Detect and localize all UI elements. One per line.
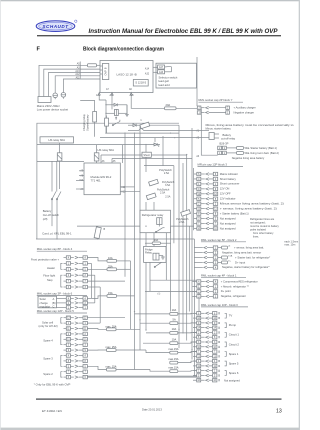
module S1218-5	[133, 80, 148, 87]
svg-text:Minus sensor living area batte: Minus sensor living area battery (batt. …	[220, 202, 284, 206]
refrigerator relay contact	[155, 228, 164, 233]
module left pins	[79, 170, 84, 191]
wire A32-A16	[153, 71, 158, 73]
wire block4 row4	[87, 274, 94, 276]
wire A14-A17	[153, 66, 158, 68]
fuse max20A	[107, 328, 117, 331]
varistor P3	[181, 210, 191, 217]
block6 row 3 pin 1	[57, 306, 88, 310]
fuse 50A starter	[226, 147, 236, 149]
wire bus y133	[106, 132, 179, 134]
svg-text:max. 20A: max. 20A	[106, 324, 117, 328]
module top pins A6 A5	[102, 160, 117, 163]
block3 row 10 pin 3	[194, 216, 236, 220]
block2 row 4 pin 3	[194, 260, 245, 264]
selector text	[159, 76, 178, 87]
block4 row 5 pin 7	[64, 279, 88, 283]
block1 row 2 pin 1	[193, 284, 249, 288]
bus wire x130.5	[130, 261, 132, 329]
fuse 10A circuit2	[170, 342, 178, 345]
left vertical v100	[99, 287, 101, 323]
wire y158	[112, 158, 192, 160]
fridge relay box	[144, 246, 166, 262]
svg-text:10A: 10A	[108, 256, 113, 260]
mains inline fuse	[88, 64, 97, 67]
svg-text:Refrigerator lines are: Refrigerator lines are	[250, 217, 275, 221]
svg-text:Not assigned: Not assigned	[220, 216, 236, 220]
svg-text:lead acid: lead acid	[159, 83, 171, 87]
blockII row 9 pin 7	[193, 350, 220, 354]
svg-text:Date 20.01.2013: Date 20.01.2013	[142, 408, 162, 412]
svg-text:A14: A14	[145, 67, 150, 70]
block1 row 4 pin 3	[193, 294, 247, 298]
pin bus tick	[79, 62, 81, 79]
wire A1 to module	[128, 130, 139, 132]
wire block5 row4 to max20A	[87, 328, 106, 331]
svg-text:Mains indicator: Mains indicator	[220, 172, 238, 176]
svg-text:Solar cell: Solar cell	[42, 320, 53, 324]
block5 brackets	[61, 318, 63, 323]
fuse 10A tv	[170, 313, 178, 316]
svg-text:Charging relay: Charging relay	[82, 113, 86, 131]
svg-text:TV: TV	[229, 314, 233, 318]
blockII group Spare 6	[225, 371, 239, 376]
svg-text:charge: charge	[40, 301, 49, 305]
svg-text:Relay: Relay	[145, 250, 153, 254]
block5 row 7 pin 9	[64, 348, 88, 352]
battery cut-off switch contacts	[51, 161, 61, 239]
blockII group Circuit 1	[225, 332, 240, 337]
wire mains L	[39, 65, 88, 96]
charging relay label (rotated)	[82, 113, 89, 131]
connector B26 row 1	[218, 151, 227, 155]
svg-text:Battery: Battery	[223, 133, 232, 137]
fuse 5A pump	[170, 322, 178, 325]
svg-text:max. 10m: max. 10m	[284, 244, 295, 247]
blockII row 4 pin 14	[193, 326, 220, 330]
wire fuse 20A	[176, 107, 197, 109]
diode D1	[106, 103, 127, 106]
svg-text:RML socket cap 5P - block 2: RML socket cap 5P - block 2	[201, 238, 237, 242]
svg-text:regulator: regulator	[40, 304, 51, 308]
svg-text:Instruction Manual for Electro: Instruction Manual for Electrobloc EBL 9…	[89, 29, 279, 35]
svg-text:from other battery: from other battery	[253, 231, 274, 235]
svg-text:S 1218-5: S 1218-5	[135, 81, 146, 85]
varistor T1	[140, 122, 150, 129]
OVP module	[102, 64, 108, 80]
wire fuse to blockII	[178, 342, 197, 343]
block3 left bus	[193, 168, 195, 230]
block6 row 1 pin 4	[57, 297, 88, 301]
resistor R1	[105, 116, 109, 134]
blockII group Circuit 2	[225, 342, 240, 347]
svg-text:D+ input: D+ input	[235, 260, 245, 264]
block5 row 9 pin 8	[64, 359, 88, 363]
svg-text:2.5A: 2.5A	[165, 195, 170, 198]
svg-text:Cut-off switch: Cut-off switch	[43, 213, 60, 217]
svg-text:cut-off-relay: cut-off-relay	[221, 136, 236, 140]
svg-text:Not assigned: Not assigned	[220, 221, 236, 225]
fridge relay coil	[153, 253, 159, 260]
svg-text:MHL socket cap 8P - block 4: MHL socket cap 8P - block 4	[37, 247, 73, 251]
svg-text:+ sensor, living area batt.: + sensor, living area batt.	[234, 245, 264, 249]
block3 row 8 pin 11	[194, 206, 277, 210]
relay coil K1	[106, 109, 127, 115]
svg-text:Battery: Battery	[43, 209, 52, 213]
block5 row 2 pin 1	[64, 321, 88, 325]
blockII group Spare 1	[225, 352, 239, 357]
wire block5 row10 to max15A	[87, 366, 106, 369]
wire hook jump	[139, 129, 144, 131]
wire selector to charger socket	[196, 57, 198, 106]
wire y291 minus	[145, 290, 199, 292]
blockII row 11 pin 4	[193, 359, 220, 363]
svg-text:Negative charger: Negative charger	[234, 110, 255, 114]
block4 row 3 pin 5	[64, 268, 88, 272]
wire fuse to blockII	[178, 312, 197, 315]
bus wire x192	[191, 128, 193, 360]
svg-text:Negative, living area batt. se: Negative, living area batt. sensor	[222, 250, 261, 254]
svg-text:2.5A: 2.5A	[179, 221, 184, 224]
wire D1 down	[126, 105, 128, 114]
resistor charging	[93, 112, 97, 123]
svg-text:max.15A: max.15A	[168, 357, 179, 361]
svg-text:+ Starter battery (Batt.1): + Starter battery (Batt.1)	[248, 146, 277, 150]
svg-text:Spare 5: Spare 5	[229, 361, 239, 365]
PCB outline Cond.pl. KPL EBL 99-1	[37, 123, 179, 239]
blockII group Pump	[225, 323, 237, 328]
svg-text:A16: A16	[159, 71, 164, 74]
Schaudt logo	[36, 20, 77, 31]
bus wire x154	[153, 202, 155, 252]
block5 row 4 pin 2	[64, 332, 88, 336]
blockII row 7 pin 3	[193, 340, 220, 344]
wire block5 row7 to max25A	[87, 349, 106, 351]
svg-text:(only for LPl-32): (only for LPl-32)	[39, 324, 58, 328]
fuse max15A spare1	[170, 351, 178, 354]
block4 labels	[31, 257, 59, 281]
svg-text:Pump: Pump	[229, 323, 237, 327]
bus wire x183	[182, 163, 184, 334]
block4 brackets	[61, 263, 63, 269]
wire y280	[150, 279, 197, 281]
terminal A16	[158, 70, 165, 74]
svg-text:* Only for EBL 99 K with OVP: * Only for EBL 99 K with OVP	[34, 383, 71, 387]
block1 row 1 pin 4	[193, 279, 258, 283]
svg-text:Spare 3: Spare 3	[43, 357, 53, 361]
PolySwitch 2.5A label 3	[176, 218, 189, 224]
svg-text:5A: 5A	[173, 318, 176, 322]
fuse 15A block6	[107, 295, 117, 298]
battery cut-off relay coil	[209, 133, 214, 140]
svg-text:Step: Step	[47, 278, 53, 282]
wire block5 row12 bottom	[87, 376, 196, 378]
svg-text:Spare 2: Spare 2	[43, 372, 53, 376]
svg-text:10A: 10A	[172, 327, 177, 331]
wire block4 row1 to fuse10A	[87, 258, 107, 261]
connector B26 row 2	[218, 146, 227, 150]
blockII row 2 pin 12	[193, 316, 220, 320]
HS relay 60A label box	[40, 137, 74, 143]
bus wire x127	[126, 105, 128, 115]
wire fuse to blockII	[178, 322, 197, 324]
svg-text:max.15A: max.15A	[168, 366, 179, 370]
mains socket	[38, 97, 51, 103]
junction dots	[56, 125, 192, 351]
svg-text:20A: 20A	[166, 103, 171, 107]
bus wire x150	[149, 247, 151, 291]
wire A44 jog	[99, 95, 106, 100]
wire A2 left	[155, 137, 201, 139]
svg-text:Solar: Solar	[40, 297, 46, 301]
wire block4 row2	[87, 262, 91, 264]
svg-text:A12: A12	[75, 73, 80, 76]
block3 row 2 pin 4	[194, 177, 237, 181]
terminal A17	[158, 65, 165, 69]
RML 2P row 2 aux charger	[197, 106, 255, 110]
socket outlet symbol 1	[53, 93, 58, 99]
PolySwitch 2.5A label 2	[157, 189, 170, 195]
wire block4 row6	[87, 286, 100, 288]
svg-text:Floor light: Floor light	[43, 274, 55, 278]
title rule	[37, 35, 281, 36]
svg-text:(-): (-)	[158, 291, 161, 295]
block4 row 6 pin 3	[64, 285, 88, 289]
svg-text:(off): (off)	[43, 217, 48, 221]
battery cut-off switch label	[43, 209, 60, 221]
fuse max15A spare5	[170, 361, 178, 364]
svg-text:Negative, starter battery for: Negative, starter battery for refrigerat…	[222, 265, 270, 269]
ground symbol 2	[159, 256, 165, 260]
left vertical v91	[90, 263, 92, 298]
svg-text:Shunt battery: Shunt battery	[220, 177, 237, 181]
block3 row 6 pin 5	[194, 197, 236, 201]
blockII row 14 pin 5	[193, 374, 220, 378]
wire board to module	[37, 160, 84, 162]
spare labels	[43, 338, 53, 376]
svg-text:B26-3P: B26-3P	[220, 142, 229, 146]
svg-text:+ Auxiliary charger: + Auxiliary charger	[234, 106, 256, 110]
shunt	[101, 152, 187, 157]
blockII row 8 pin 10	[193, 345, 220, 349]
bus wire x199	[198, 280, 200, 313]
block5 row 3 pin 11	[64, 327, 88, 331]
svg-text:T1: T1	[140, 120, 142, 122]
bus wire x179	[178, 125, 180, 348]
svg-text:Frost protection valve +: Frost protection valve +	[31, 257, 59, 261]
wire bottom y376	[87, 375, 196, 377]
note minus living area	[206, 123, 295, 131]
blockII row 13 pin 1	[193, 369, 220, 373]
switch S1	[112, 120, 120, 126]
fuse max15A spare6	[170, 370, 178, 373]
note refrigerator lines	[250, 217, 280, 239]
wire fuse to blockII	[178, 352, 197, 353]
wire mains N	[44, 69, 100, 96]
bus wire x140	[139, 125, 141, 350]
wire fuse to blockII	[178, 332, 197, 334]
svg-text:A13: A13	[75, 70, 80, 73]
blockII row 12 pin 11	[193, 364, 220, 368]
bus wire x166.3	[165, 226, 167, 280]
svg-text:Minus, living area battery mus: Minus, living area battery must be conne…	[206, 123, 295, 127]
blockII group Spare 5	[225, 361, 239, 366]
bus wire x125	[124, 133, 126, 277]
wire block5 solar row	[87, 317, 125, 319]
block5 row 5 pin 10	[64, 338, 88, 342]
selector contact	[165, 65, 172, 68]
svg-text:LASO 12 18 -B: LASO 12 18 -B	[117, 72, 137, 76]
RML 2P row 1 negative charger	[197, 110, 254, 114]
svg-text:Refrigerator relay: Refrigerator relay	[142, 213, 164, 217]
svg-text:RML socket cap 10P - block II: RML socket cap 10P - block II	[201, 303, 238, 307]
svg-text:+ Starter batt. for refrigerat: + Starter batt. for refrigerator*	[235, 255, 270, 259]
wire y239	[36, 238, 194, 240]
bus wire x173.9	[173, 166, 175, 244]
blockII row 10 pin 13	[193, 355, 220, 359]
wire fuse to blockII	[178, 361, 197, 363]
block3 row 9 pin 8	[194, 211, 249, 215]
bus wire x163	[162, 136, 164, 166]
block5 row 11 pin 7	[64, 370, 88, 374]
fuse 20A	[165, 107, 177, 110]
svg-text:12V ON: 12V ON	[220, 187, 230, 191]
pin labels A5 A3 A13 A12	[75, 63, 80, 80]
wire outlet2	[63, 79, 100, 93]
svg-text:RML socket cap 4P - block 1: RML socket cap 4P - block 1	[201, 273, 237, 277]
HS relay contact 1	[57, 143, 62, 189]
svg-text:2): 2)	[228, 245, 230, 247]
solar cell label	[39, 320, 58, 328]
svg-text:13: 13	[276, 409, 282, 415]
block3 row 1 pin 6	[194, 172, 238, 176]
svg-text:+ Absorb. refrigerator **: + Absorb. refrigerator **	[221, 284, 249, 288]
bus wire x170.5	[170, 226, 172, 311]
svg-text:ET 4190A / EN: ET 4190A / EN	[42, 409, 62, 413]
svg-text:771 461: 771 461	[91, 179, 102, 183]
block5 row 8 pin 4	[64, 354, 88, 358]
svg-text:F: F	[37, 46, 41, 52]
svg-text:max.15A: max.15A	[168, 347, 179, 351]
svg-text:25A: 25A	[108, 264, 113, 268]
svg-text:Block diagram/connection diagr: Block diagram/connection diagram	[83, 46, 164, 52]
block2 row 5 pin 4	[194, 265, 269, 269]
svg-text:Circuit 1: Circuit 1	[229, 333, 240, 337]
wire outlet1	[55, 76, 100, 93]
svg-text:A17: A17	[159, 66, 164, 69]
svg-text:Shunt consumer: Shunt consumer	[220, 182, 240, 186]
varistor P1	[149, 179, 159, 186]
fuse max25A	[107, 349, 117, 352]
blockII row 3 pin 9	[193, 321, 220, 325]
svg-text:C: C	[53, 304, 55, 308]
svg-text:Heater: Heater	[47, 266, 55, 270]
block4 row 2 pin 1	[64, 262, 88, 266]
svg-text:HS relay 60A: HS relay 60A	[48, 138, 65, 142]
arrow A45	[111, 93, 113, 95]
bus wire x146	[145, 145, 147, 173]
varistor B	[94, 227, 101, 239]
svg-text:Not assigned: Not assigned	[220, 226, 236, 230]
block3 row 12 pin 10	[194, 226, 236, 230]
fuse 50A living room	[226, 152, 236, 154]
wire block6 row1 to fuse15A	[91, 296, 107, 299]
svg-text:A12: A12	[121, 191, 126, 194]
ground symbol 1	[125, 113, 129, 116]
bus wire x186.7	[186, 155, 188, 341]
svg-text:Cond. pl. KPL EBL 99-1: Cond. pl. KPL EBL 99-1	[42, 231, 72, 235]
socket outlet symbol 2	[61, 93, 66, 99]
block2 row 3 pin 1	[194, 254, 270, 259]
wire fuse to blockII	[178, 370, 197, 373]
blockII row 6 pin 8	[193, 336, 220, 340]
svg-text:10A: 10A	[172, 308, 177, 312]
svg-text:2.5A: 2.5A	[164, 171, 170, 175]
blockII row 15 pin 16	[193, 379, 220, 383]
svg-text:Spare 1: Spare 1	[229, 352, 239, 356]
wire A45 down	[111, 95, 113, 109]
left vertical v94	[94, 275, 96, 303]
block3 row 4 pin 9	[194, 187, 230, 191]
svg-text:15A: 15A	[108, 291, 113, 295]
svg-text:MHL socket cap 12P - block 5: MHL socket cap 12P - block 5	[37, 309, 74, 313]
svg-text:Spare 4: Spare 4	[43, 338, 53, 342]
refrigerator relay box	[140, 210, 171, 233]
block3 row 7 pin 2	[194, 202, 284, 206]
svg-text:+ Compressor/AES refrigerator: + Compressor/AES refrigerator	[221, 279, 258, 283]
block5 row 6 pin 3	[64, 343, 88, 347]
svg-text:not assigned;: not assigned;	[250, 220, 266, 224]
PolySwitch 3.5A label	[162, 181, 175, 187]
svg-text:+ living room batt. (Batt.2): + living room batt. (Batt.2)	[248, 151, 279, 155]
bus wire x194.4	[193, 239, 195, 376]
svg-text:Low power device socket: Low power device socket	[37, 108, 68, 112]
charger LASO 1218-B	[100, 61, 153, 93]
refrigerator relay coil	[157, 218, 162, 227]
svg-text:10A: 10A	[172, 338, 177, 342]
arrow A44	[98, 93, 100, 95]
note wire size	[284, 240, 298, 246]
bus wire x189.3	[188, 226, 190, 311]
svg-text:3.5A: 3.5A	[165, 184, 170, 187]
svg-text:A: A	[53, 297, 55, 301]
selector switch enclosure	[156, 63, 197, 88]
wire charging resistor	[94, 103, 96, 112]
arrow into coil	[115, 117, 117, 120]
footer rule	[36, 399, 282, 400]
fuse 10A circuit1	[170, 332, 178, 335]
svg-text:Negative, refrigerator: Negative, refrigerator	[221, 294, 246, 298]
svg-text:2.5A: 2.5A	[160, 191, 165, 194]
svg-text:HS relay 60A: HS relay 60A	[98, 148, 115, 152]
varistor P2	[146, 193, 156, 200]
block4 row 4 pin 2	[64, 274, 88, 278]
svg-text:MR pin cap 12P block 3: MR pin cap 12P block 3	[198, 163, 228, 167]
diode D3	[37, 143, 160, 147]
wire bus y137.6	[100, 137, 155, 139]
solar charge regulator	[38, 296, 57, 308]
svg-text:Shunt: Shunt	[143, 154, 150, 157]
svg-text:Negative living area battery: Negative living area battery	[232, 156, 265, 160]
arrow A15	[130, 93, 132, 95]
svg-text:A32: A32	[145, 73, 150, 76]
svg-text:poles isolated: poles isolated	[250, 227, 266, 231]
blockII row 1 pin 6	[193, 312, 220, 316]
block5 row 12 pin 6	[64, 375, 88, 379]
block2 row 2 pin 2	[194, 250, 261, 254]
wire A15 down	[131, 95, 164, 108]
block5 row 1 pin 12	[64, 316, 88, 320]
